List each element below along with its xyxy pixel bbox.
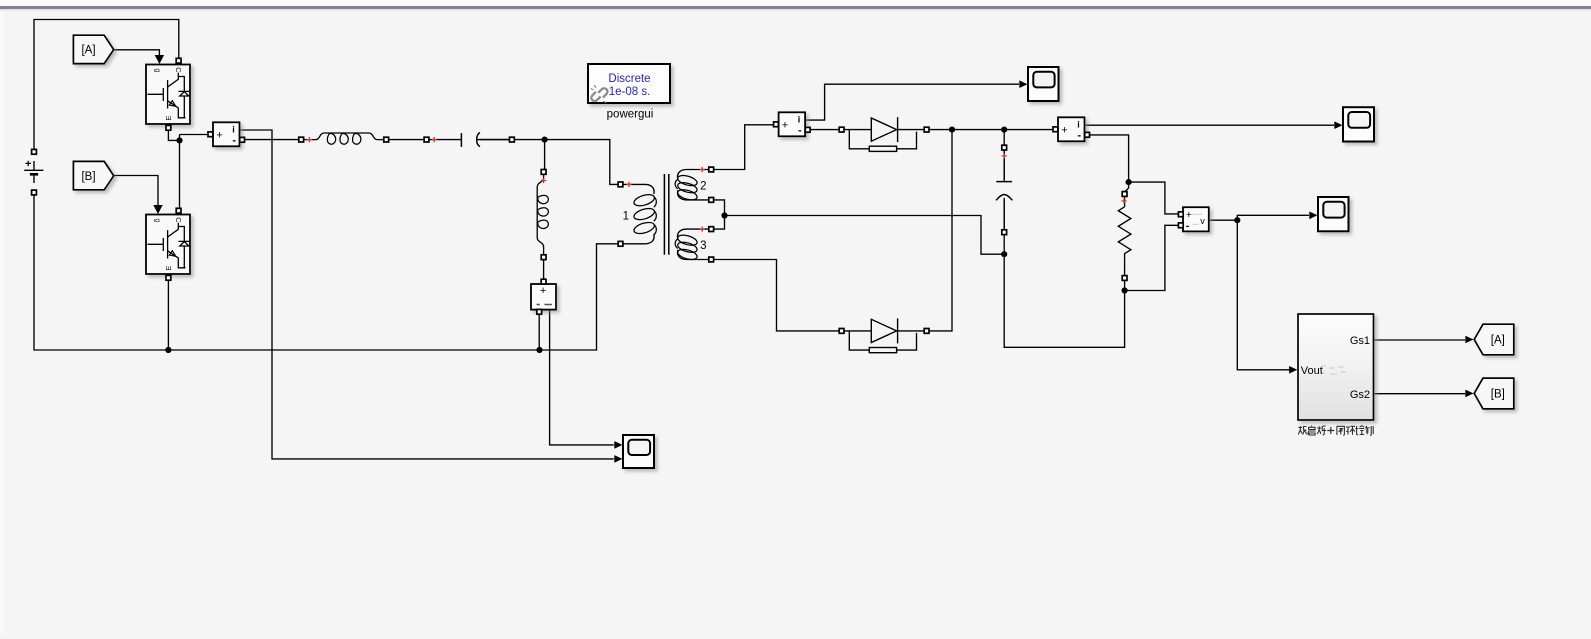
svg-text:g: g [154,219,161,223]
svg-text:-: - [798,125,802,137]
svg-text:C: C [174,67,183,73]
wire bus current sensor i to scope2 [1085,124,1335,126]
capacitor Cf (output filter) [996,145,1012,234]
label 软启动+闭环控制 under controller [1298,426,1373,436]
wire filter capacitor top stub [1003,130,1005,179]
svg-text:3: 3 [700,240,706,252]
From tag [B] [73,161,113,189]
svg-text:powergui: powergui [607,109,654,121]
Goto tag [B] [1474,378,1514,409]
wire junction down to magnetizing inductor [544,140,546,170]
svg-text:Vout: Vout [1301,365,1323,377]
svg-text:+: + [1061,125,1067,137]
svg-text:[A]: [A] [81,45,95,57]
svg-text:[B]: [B] [81,171,95,183]
wire midpoint to current sensor + [180,134,211,136]
wire From[B] to IGBT2 gate [114,176,158,207]
voltage measurement V1 (transformer primary voltage) [531,279,556,314]
resistor Rload [1118,192,1131,281]
capacitor Cr (series resonant) [424,133,514,147]
svg-text:1e-08 s.: 1e-08 s. [609,86,651,98]
wire bottom rail battery- to transformer primary return [34,195,618,350]
wire voltage sensor - to bottom rail [538,314,540,351]
DC voltage source battery [24,149,43,195]
wire filter capacitor bottom stub [1003,201,1005,254]
svg-text:-: - [1077,130,1081,142]
inductor Lr (series resonant) [299,133,389,144]
wire magnetizing inductor bottom to voltage sensor + [543,260,545,282]
node midpoint junction [176,137,182,143]
transformer T1 (three-winding) [618,167,714,262]
wire controller Gs2 to Goto[B] [1374,393,1466,395]
node bottom rail junction at voltage sensor - [536,347,542,353]
wire controller Gs1 to Goto[A] [1374,339,1466,341]
node Vout junction [1234,217,1240,223]
wire output current sensor i to scope1 [805,84,1019,120]
svg-text:2: 2 [700,181,706,193]
node load top junction [1126,179,1132,185]
node bottom rail junction at IGBT2 emitter [165,347,171,353]
node filter capacitor bottom junction [1001,251,1007,257]
subsystem controller (soft start + closed loop) [1298,314,1374,420]
wire voltage sensor v output to scope4 upper input [550,310,614,445]
svg-text:E: E [164,266,173,271]
wire load resistor bottom to junction [1124,280,1126,291]
wire diode D1 to DC bus rail [929,129,1053,131]
scope Scope2 (load current) [1343,107,1374,141]
svg-text:+: + [782,120,788,132]
svg-text:C: C [174,217,183,223]
wire output current sensor - to diode D1 [807,129,839,131]
node resonant node junction [542,137,548,143]
svg-text:[A]: [A] [1491,335,1505,347]
wire Vout junction to scope3 [1237,215,1309,220]
node DC bus junction at D2 return [949,127,955,133]
svg-text:Gs2: Gs2 [1350,389,1370,401]
voltage measurement V2 (output voltage) [1178,207,1208,232]
scope Scope3 (output voltage) [1318,197,1349,231]
wire load bottom junction to voltage sensor - [1125,225,1179,290]
current measurement I3 (load current) [1053,117,1090,141]
current measurement I2 (rectifier current) [774,112,811,136]
svg-text:+: + [540,285,546,297]
scope Scope4 (primary quantities) [623,435,654,468]
wire center tap to filter capacitor bottom [725,216,1003,255]
svg-text:i: i [1077,120,1080,130]
wire diode D2 up to DC bus [929,130,952,331]
diode D2 [839,318,929,352]
From tag [A] [73,35,113,63]
wire battery+ to IGBT1 collector [34,20,179,150]
svg-text:1: 1 [623,210,629,222]
svg-text:g: g [154,69,161,73]
wire transformer center tap stubs [713,200,724,229]
node center tap junction [721,212,727,218]
wire IGBT2 emitter to bottom rail [167,278,169,351]
svg-text:+: + [216,130,222,142]
svg-text:-: - [1186,220,1190,232]
svg-text:i: i [798,115,801,125]
wire current sensor i output to scope4 lower input [240,130,614,459]
wire return path capacitor bottom to load bottom [1004,254,1124,347]
IGBT Q2 [146,208,190,280]
powergui block [588,64,670,121]
wire current sensor - to series inductor [242,139,299,141]
svg-text:Gs1: Gs1 [1350,335,1370,347]
svg-text:-: - [232,135,236,147]
wire Vout junction to controller input [1237,220,1289,370]
wire bus current sensor - to load resistor top [1089,135,1129,194]
wire midpoint vertical to IGBT2 collector [179,135,181,211]
svg-text:E: E [164,116,173,121]
current measurement I1 (resonant current) [208,122,245,146]
node DC bus junction at filter capacitor [1001,127,1007,133]
svg-text:v: v [1200,216,1205,226]
wire output voltage sensor v to junction [1209,219,1237,221]
wire IGBT1 emitter to midpoint junction [168,127,179,140]
wire series capacitor to transformer primary [480,140,618,185]
scope Scope1 (rectifier current) [1028,67,1059,101]
svg-text:i: i [232,125,235,135]
svg-text:Discrete: Discrete [608,73,650,85]
diode D1 [839,117,929,151]
node load bottom junction [1122,287,1128,293]
wire load top junction to voltage sensor + [1129,182,1179,214]
wire series inductor to series capacitor [389,139,425,141]
svg-text:[B]: [B] [1491,389,1505,401]
IGBT Q1 [146,58,190,130]
inductor Lm (magnetizing, vertical) [537,170,548,260]
wire secondary3 bottom to diode D2 [713,260,839,331]
wire secondary2 top to output current sensor + [713,125,775,170]
Goto tag [A] [1474,324,1514,355]
wire From[A] to IGBT1 gate [114,50,160,56]
